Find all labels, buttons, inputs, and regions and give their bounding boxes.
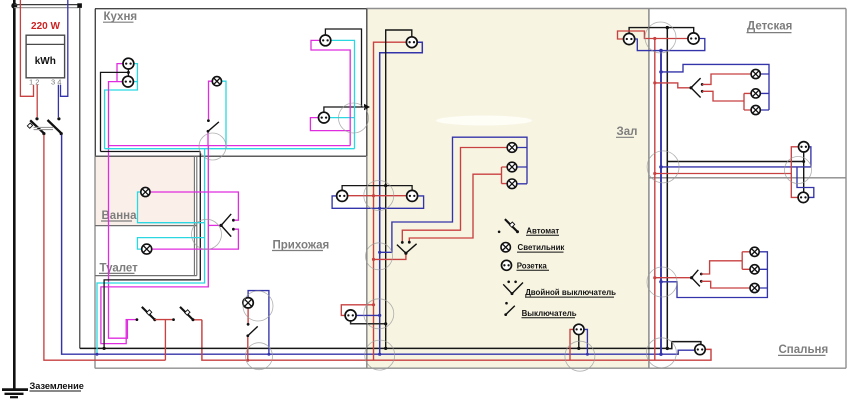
- wire supply upper: [14, 4, 78, 6]
- junction circle mid socket bottom: [565, 341, 595, 371]
- wire red bedroom lamp3: [701, 281, 750, 288]
- wire magenta hallway breakers feed: [126, 319, 136, 321]
- node black riser to run: [384, 347, 387, 350]
- legend lamp symbol: [501, 243, 510, 252]
- wire red between breakers: [155, 320, 172, 361]
- wire black hall mid sockets: [342, 186, 412, 191]
- junction circle hallway lamp switch: [243, 291, 273, 321]
- node black junction right sockets: [802, 160, 805, 163]
- wire red hall bottom socket: [341, 305, 373, 316]
- wire red run right section: [202, 320, 711, 360]
- wire red riser right: [654, 39, 656, 361]
- wall apartment top rest: [367, 8, 847, 10]
- lamp L12 bedroom mid: [750, 265, 759, 274]
- wall hall left upper: [366, 9, 368, 157]
- legend label Автомат: [526, 227, 559, 236]
- wire black kitchen right sockets ground: [324, 29, 365, 112]
- node blue riser junction right sockets: [659, 165, 663, 169]
- node supply tap dot: [11, 3, 17, 9]
- legend label Двойной выключатель: [525, 288, 616, 297]
- wire black riser toilet wall: [104, 152, 200, 349]
- junction circle hall mid: [364, 181, 394, 211]
- lamp L4 hallway: [243, 298, 253, 308]
- lamp L7 hall chandelier bottom: [507, 179, 517, 189]
- wire black run to bedroom socket: [668, 342, 701, 349]
- wire red terminal1 to top edge: [20, 0, 33, 96]
- wire red riser hall: [374, 42, 407, 360]
- node blue run junction mid socket: [586, 353, 589, 356]
- socket H2 hall mid left: [337, 190, 348, 201]
- svg-text:Заземление: Заземление: [30, 381, 84, 391]
- junction circle top right sockets: [645, 22, 676, 53]
- socket K4 kitchen right lower: [319, 112, 330, 123]
- node supply terminal square: [77, 3, 82, 8]
- switch S2 double bathroom toilet: [220, 214, 235, 237]
- node blue riser junction top: [659, 49, 663, 53]
- junction circle hall riser bottom: [365, 340, 395, 370]
- label room Спальня: [778, 344, 828, 356]
- node black run junction: [103, 347, 106, 350]
- node red riser junction bedroom: [653, 276, 656, 279]
- wire red hall switch common: [374, 252, 406, 259]
- node black riser junction bottom socket: [384, 322, 387, 325]
- wire black hall bottom mid socket: [578, 334, 580, 348]
- wire cyan toilet lamp: [137, 238, 204, 250]
- wire cyan riser toilet wall: [97, 149, 205, 355]
- wire red hallway lamp to switch: [247, 308, 249, 323]
- wire red top sockets pair: [618, 31, 689, 39]
- socket H1 hall top: [406, 37, 417, 48]
- node black run junction mid socket: [577, 347, 580, 350]
- wire red hall bottom mid socket: [570, 329, 574, 360]
- socket K1 kitchen left upper: [123, 58, 134, 69]
- ground symbol bottom: [2, 390, 28, 398]
- wire blue riser right: [660, 51, 662, 355]
- switch S1 kitchen: [207, 119, 219, 133]
- node arrow through wall: [364, 104, 370, 110]
- room background bathroom (Ванна) pink: [96, 157, 195, 226]
- node red riser junction chandelier: [372, 258, 375, 261]
- node cyan to blue run junction: [96, 353, 99, 356]
- lamp L9 children mid: [751, 89, 760, 98]
- lamp L3 toilet: [142, 244, 152, 254]
- node red riser junction right sockets: [653, 172, 656, 175]
- meter kWh box: [26, 35, 65, 78]
- wire blue children chandelier: [661, 64, 769, 110]
- lamp L10 children bottom: [751, 105, 760, 114]
- wall apartment left lower: [94, 156, 96, 368]
- lamp L2 bathroom: [141, 187, 150, 196]
- wire red children lamp1: [702, 74, 751, 84]
- socket K2 kitchen left lower: [123, 76, 134, 87]
- lamp L5 hall chandelier top: [507, 143, 517, 153]
- svg-text:Зал: Зал: [617, 126, 638, 138]
- wire cyan kitchen right sockets: [329, 40, 354, 148]
- wire red breaker right output: [195, 319, 202, 321]
- wire red hallway switch to run: [247, 337, 249, 360]
- wall bathroom right outer: [196, 156, 198, 275]
- socket T1 hall side top: [624, 33, 635, 44]
- junction circle right divider: [647, 151, 679, 183]
- wire cyan bathroom lamp: [138, 192, 205, 223]
- wire red right wall sockets: [655, 147, 799, 198]
- wire blue bedroom chandelier return: [661, 252, 767, 298]
- node blue riser bottom junction: [659, 353, 662, 356]
- wire cyan stub socket K2: [134, 81, 137, 83]
- wire black kitchen run: [101, 151, 201, 153]
- wire black run bottom: [80, 347, 668, 349]
- legend label Розетка: [517, 261, 550, 270]
- socket H3 hall mid right: [407, 190, 418, 201]
- breaker QF2 automat left: [136, 307, 157, 321]
- wire blue terminal4 to top edge: [61, 0, 68, 96]
- junction circle right riser bottom: [646, 338, 676, 368]
- node blue riser junction mid: [378, 207, 381, 210]
- wire magenta feed double switch hallway: [208, 224, 219, 226]
- svg-text:Спальня: Спальня: [779, 344, 829, 356]
- svg-text:Туалет: Туалет: [100, 262, 139, 274]
- lamp L1 kitchen: [212, 77, 221, 86]
- ground bus vertical: [13, 0, 16, 389]
- legend label Светильник: [517, 243, 564, 252]
- svg-text:Двойной выключатель: Двойной выключатель: [525, 288, 616, 297]
- switch S4 double hall: [397, 241, 417, 255]
- node kitchen socket ground dot: [127, 71, 130, 74]
- junction circle hall bottom socket: [364, 299, 394, 329]
- svg-text:Автомат: Автомат: [526, 227, 559, 236]
- label room Ванна: [101, 210, 137, 222]
- wire red hall chandelier lamp1: [402, 148, 507, 243]
- wire blue riser hall: [380, 42, 423, 354]
- node red run junction hallway: [246, 359, 249, 362]
- wire magenta toilet lamp to switch: [152, 229, 239, 249]
- wall apartment bottom: [95, 367, 846, 369]
- eraser smudge hall: [436, 116, 532, 126]
- breaker QF1 two pole: [27, 117, 63, 135]
- wire red terminal2 to breaker: [36, 85, 38, 118]
- node red riser junction mid: [372, 194, 375, 197]
- wire blue hallway lamp: [248, 291, 269, 355]
- svg-text:Розетка: Розетка: [517, 261, 548, 270]
- socket T3 children right: [799, 142, 809, 152]
- svg-text:Прихожая: Прихожая: [273, 239, 330, 251]
- node blue riser to run: [378, 353, 381, 356]
- node black riser bottom junction: [666, 347, 669, 350]
- wire blue right wall sockets: [661, 147, 814, 198]
- wire blue top sockets pair: [635, 39, 705, 51]
- node blue run junction hallway: [267, 353, 270, 356]
- junction circle bathroom switch: [192, 219, 222, 249]
- socket H5 hall bottom mid: [574, 324, 584, 334]
- room background hall (Зал) beige: [368, 9, 649, 369]
- wire black right wall sockets: [667, 152, 803, 192]
- wire magenta kitchen run: [109, 145, 351, 147]
- svg-text:Ванна: Ванна: [102, 210, 138, 222]
- wire red bedroom lamps12: [701, 252, 750, 274]
- wire cyan kitchen run: [105, 148, 355, 150]
- socket T5 bedroom bottom: [695, 344, 705, 354]
- node black riser junction mid: [384, 184, 387, 187]
- wire blue breaker down to run: [62, 135, 695, 354]
- wall toilet bottom: [95, 275, 197, 277]
- lamp L8 children top: [751, 69, 760, 78]
- label room Детская: [747, 20, 793, 32]
- wire red children lamps23: [702, 91, 751, 110]
- svg-text:220 W: 220 W: [31, 21, 60, 32]
- legend socket symbol: [502, 260, 512, 270]
- lamp L11 bedroom top: [750, 247, 759, 256]
- junction circle kitchen bottom: [199, 133, 226, 160]
- wall hall right: [648, 9, 650, 369]
- wire magenta kitchen lamp: [209, 81, 213, 119]
- legend switch symbol: [504, 302, 514, 316]
- svg-text:kWh: kWh: [35, 56, 56, 67]
- legend double switch symbol: [503, 281, 523, 296]
- switch S5 double children: [689, 78, 703, 97]
- junction circle hallway switch bottom: [246, 343, 273, 370]
- wire black kitchen sockets ground: [101, 69, 129, 152]
- wall bathroom right inner: [193, 156, 195, 275]
- label room Кухня: [103, 11, 137, 23]
- wire black riser right: [666, 28, 668, 349]
- junction circle kitchen right: [339, 103, 369, 133]
- wire magenta bathroom lamp to switch: [150, 192, 238, 220]
- node red riser junction top: [653, 37, 656, 40]
- legend label Выключатель: [522, 309, 577, 318]
- wire blue hall bottom socket: [356, 314, 380, 316]
- junction circle bedroom switch: [647, 267, 677, 297]
- wire magenta riser toilet wall: [101, 146, 208, 344]
- label Заземление: [30, 381, 84, 391]
- wire red hall chandelier lamps23: [409, 167, 507, 242]
- svg-text:1 2: 1 2: [29, 78, 39, 87]
- wire blue terminal3 to breaker: [57, 85, 59, 118]
- wire blue hall bottom mid socket: [584, 329, 588, 354]
- wire cyan kitchen lamp: [221, 81, 226, 149]
- wall kitchen bottom: [95, 155, 367, 157]
- wall bedroom children divider: [649, 177, 846, 179]
- wire magenta kitchen right sockets: [310, 40, 350, 145]
- wire black riser hall: [386, 30, 412, 348]
- svg-text:Светильник: Светильник: [518, 243, 565, 252]
- wire magenta kitchen sockets feed: [109, 64, 128, 339]
- socket H4 hall bottom left: [345, 310, 356, 321]
- node red riser junction children: [653, 81, 656, 84]
- socket K3 kitchen right upper: [320, 35, 331, 46]
- wall bathroom toilet divider: [95, 225, 197, 227]
- switch S3 hallway: [246, 323, 257, 337]
- node red riser junction bottom socket: [372, 303, 375, 306]
- wire blue hall mid sockets: [332, 196, 424, 208]
- wire panel enclosure right: [79, 8, 81, 348]
- label room Зал: [616, 126, 637, 138]
- wire black top sockets pair: [629, 28, 694, 34]
- svg-text:Детская: Детская: [747, 20, 792, 32]
- socket T2 children top: [688, 33, 699, 44]
- label room Туалет: [99, 262, 138, 274]
- junction circle hall switch: [366, 243, 393, 270]
- node black junction top: [666, 26, 669, 29]
- switch S6 double bedroom: [690, 270, 703, 287]
- wire black hall bottom socket: [351, 321, 386, 324]
- node blue riser junction bottom socket: [378, 314, 381, 317]
- lamp L6 hall chandelier mid: [507, 162, 517, 172]
- wire red hall mid sockets: [348, 195, 407, 197]
- wall apartment left kitchen segment: [94, 9, 96, 157]
- node blue riser junction children: [659, 70, 663, 74]
- junction circle right sockets: [785, 157, 812, 184]
- wire supply lower: [14, 7, 78, 9]
- wire blue hall chandelier: [380, 137, 527, 252]
- wire red children switch feed: [655, 83, 690, 88]
- wire red bedroom switch feed: [655, 277, 690, 279]
- wire red breaker down to run: [44, 135, 165, 360]
- breaker QF3 automat right: [172, 307, 194, 321]
- svg-text:Кухня: Кухня: [104, 11, 138, 23]
- socket T4 bedroom right: [798, 192, 808, 202]
- svg-text:Выключатель: Выключатель: [522, 309, 577, 318]
- label room Прихожая: [272, 239, 329, 251]
- wall hall left lower: [366, 156, 368, 368]
- wire magenta kitchen switch to run: [207, 133, 209, 146]
- wall apartment right: [845, 9, 847, 369]
- wall apartment top kitchen segment: [95, 8, 367, 10]
- legend breaker symbol: [498, 219, 519, 233]
- node blue riser junction bedroom: [659, 280, 663, 284]
- node blue riser junction chandelier: [378, 251, 381, 254]
- wire cyan kitchen sockets feed: [105, 64, 138, 149]
- lamp L13 bedroom bottom: [750, 283, 759, 292]
